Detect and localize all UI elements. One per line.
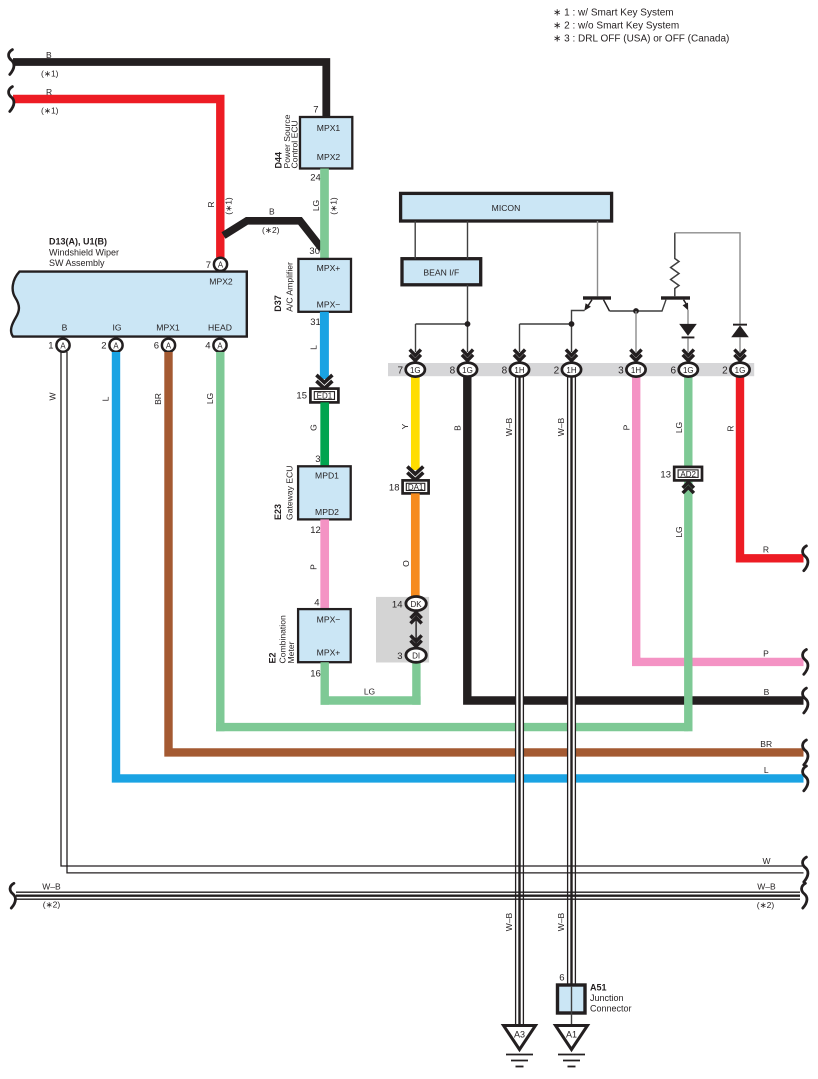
svg-text:LG: LG [674,526,684,537]
svg-text:6: 6 [154,341,159,352]
junction node collector [633,308,639,314]
wire W-B horizontal (*2) [16,881,800,910]
svg-text:MPX+: MPX+ [317,648,341,658]
wire LG (*1) D44 pin24 to D37 pin30 [309,169,338,260]
svg-text:D13(A), U1(B): D13(A), U1(B) [49,237,107,247]
wire diode D1 to pin6(1G) [687,338,689,352]
svg-text:B: B [46,50,52,60]
ground A1 [556,1026,588,1067]
wire O DA1 to DK [401,493,415,597]
svg-text:2: 2 [722,366,728,377]
svg-text:P: P [622,424,632,430]
wire B (*2) from R wire to D37 pin 30 [224,207,323,249]
svg-text:1H: 1H [514,366,524,375]
break left of wire W-B [10,883,15,908]
svg-text:8: 8 [450,366,456,377]
wire P E23 pin12 to E2 pin4 [309,519,325,609]
connector pin 6 (1G) [670,350,697,377]
svg-text:E23: E23 [273,504,283,520]
svg-text:IG: IG [112,323,121,333]
svg-text:A: A [166,342,172,351]
svg-text:Junction: Junction [590,993,624,1003]
svg-text:MPX2: MPX2 [317,152,341,162]
ECU MICON block [401,193,612,221]
svg-text:L: L [764,765,769,775]
svg-text:(∗1): (∗1) [41,69,59,79]
svg-text:6: 6 [670,366,676,377]
break right of wire L [803,766,808,791]
svg-text:MPX−: MPX− [317,300,341,310]
svg-text:R: R [763,545,769,555]
switch D13(A) U1(B) Windshield Wiper SW Assembly [11,237,247,337]
svg-text:Gateway ECU: Gateway ECU [285,466,295,520]
svg-text:A3: A3 [514,1030,525,1040]
svg-text:O: O [401,560,411,567]
svg-text:SW Assembly: SW Assembly [49,258,105,268]
svg-text:MPX+: MPX+ [317,263,341,273]
svg-text:(∗1): (∗1) [41,106,59,116]
svg-text:4: 4 [314,598,319,609]
wire LG E2 pin16 to connector DI [321,662,421,705]
wire W wiper pin1 to right edge [48,352,804,873]
svg-text:(∗2): (∗2) [757,900,775,910]
wire G ED1 to E23 pin3 [309,402,325,466]
pin 4 (A) bottom [205,339,226,352]
svg-text:W–B: W–B [42,881,61,891]
wire LG from wiper HEAD pin4 up to pin6(1G) [205,352,693,731]
svg-text:E2: E2 [268,652,278,663]
wire resistor top to diode D2 [675,233,740,324]
ECU D44 Power Source Control ECU [274,105,353,184]
svg-text:G: G [309,424,319,431]
svg-text:1H: 1H [631,366,641,375]
svg-text:R: R [46,87,52,97]
junction node Q1 emitter [569,321,575,327]
svg-text:3: 3 [315,454,320,465]
wire L D37 pin31 to ED1 [309,312,325,379]
break right of wire BR [803,740,808,765]
svg-text:1G: 1G [462,366,473,375]
svg-text:(∗2): (∗2) [43,900,61,910]
svg-text:A: A [113,342,119,351]
svg-text:BR: BR [153,393,163,405]
svg-text:MPX1: MPX1 [317,123,341,133]
connector strip 1G/1H [388,363,754,376]
svg-text:∗ 1 : w/ Smart Key System: ∗ 1 : w/ Smart Key System [553,8,674,19]
svg-text:MICON: MICON [492,203,521,213]
resistor R1 [671,233,679,296]
svg-text:8: 8 [502,366,508,377]
svg-text:A1: A1 [566,1030,577,1040]
pin 6 (A) bottom [154,339,175,352]
wire diode D2 to pin2(1G) [739,337,741,352]
svg-text:BR: BR [760,739,772,749]
svg-text:P: P [763,649,769,659]
svg-text:MPX2: MPX2 [209,277,233,287]
diode D1 [679,324,697,339]
wire R (*1) horizontal to wiper pin 7 [13,87,234,258]
svg-text:A: A [217,342,223,351]
svg-text:7: 7 [313,105,318,116]
svg-text:MPD1: MPD1 [315,470,339,480]
svg-text:HEAD: HEAD [208,323,232,333]
wire R pin2(1G) to right edge [726,377,804,559]
wire Q1 emitter to connectors 1H [520,311,585,353]
junction connector A51 [558,973,632,1026]
wire P pin3(1H) to right edge [622,377,804,662]
pin 2 (A) bottom [101,339,122,352]
break right of wire B [803,688,808,713]
svg-text:7: 7 [206,260,211,271]
svg-text:DA1: DA1 [408,483,424,492]
svg-text:15: 15 [296,391,307,402]
svg-text:W–B: W–B [556,912,566,931]
legend notes [553,8,729,45]
svg-text:(∗1): (∗1) [224,197,234,215]
svg-text:1: 1 [48,341,53,352]
connector DA1 [389,467,429,494]
svg-text:24: 24 [310,173,321,184]
wire L wiper IG pin2 to right edge [101,352,804,778]
svg-text:MPX−: MPX− [317,615,341,625]
svg-text:(∗1): (∗1) [329,197,339,215]
connector ED1 [296,375,338,402]
svg-text:W: W [762,856,770,866]
svg-text:Meter: Meter [286,641,296,663]
svg-text:W: W [48,392,58,400]
svg-text:A: A [218,261,224,270]
break left of wire B [9,50,14,75]
arrows and link DK to DI [411,612,422,646]
svg-text:B: B [764,687,770,697]
svg-text:A: A [60,342,66,351]
wire Q1 collector to Q2 collector [610,300,667,311]
svg-text:LG: LG [364,687,375,697]
svg-text:Windshield Wiper: Windshield Wiper [49,248,119,258]
svg-text:BEAN I/F: BEAN I/F [423,267,459,277]
connector pin 8 (1H) [502,350,529,377]
svg-text:DI: DI [412,652,420,661]
break right of wire P [803,650,808,675]
svg-text:Y: Y [400,423,410,429]
svg-text:LG: LG [311,200,321,211]
connector DK pin14 [392,597,426,611]
svg-text:B: B [62,323,68,333]
transistor Q2 [661,296,690,310]
ECU BEAN I/F block [402,259,481,285]
svg-text:2: 2 [554,366,560,377]
svg-text:12: 12 [310,525,321,536]
svg-text:MPX1: MPX1 [156,323,180,333]
ECU E2 Combination Meter [268,609,351,679]
wire node to pin3(1H) [635,311,637,352]
connector pin 2 (1H) [554,350,581,377]
wire B (*1) top horizontal [13,50,326,117]
svg-text:31: 31 [310,317,321,328]
break right of wire R [803,546,808,571]
svg-text:A51: A51 [590,983,607,993]
svg-text:L: L [309,345,319,350]
wire Y pin7(1G) to DA1 [400,377,415,471]
svg-text:B: B [453,425,463,431]
connector pin 8 (1G) [450,350,477,377]
svg-text:D37: D37 [273,295,283,312]
svg-text:∗ 3 : DRL OFF (USA) or OFF (Ca: ∗ 3 : DRL OFF (USA) or OFF (Canada) [553,34,729,45]
wire MICON to BEAN I/F right [467,221,469,259]
svg-text:R: R [206,201,216,207]
svg-text:W–B: W–B [504,417,514,436]
connector AD2 on LG wire [660,467,702,493]
svg-text:13: 13 [660,470,671,481]
svg-text:W–B: W–B [757,882,776,892]
svg-text:1G: 1G [683,366,694,375]
svg-text:A/C Amplifier: A/C Amplifier [285,262,295,312]
connector DI pin3 [397,648,426,662]
svg-text:Connector: Connector [590,1004,632,1014]
svg-text:ED1: ED1 [317,392,333,401]
svg-text:W–B: W–B [504,912,514,931]
svg-text:7: 7 [397,366,403,377]
svg-text:30: 30 [309,246,320,257]
ECU E23 Gateway ECU [273,466,351,536]
svg-text:1G: 1G [410,366,421,375]
svg-text:DK: DK [411,600,423,609]
break right of wire W-B [802,883,807,908]
wire BR wiper MPX1 pin6 to right edge [153,352,804,752]
connector pin 7 (1G) [397,350,424,377]
svg-text:(∗2): (∗2) [262,225,280,235]
connector pin 2 (1G) [722,350,749,377]
pin 1 (A) bottom [48,339,69,352]
break right of wire W [803,857,808,882]
svg-text:3: 3 [397,651,402,662]
wire W-B pin8(1H) to ground A3 [504,377,524,1026]
svg-text:6: 6 [559,973,564,984]
svg-text:L: L [101,396,111,401]
svg-text:MPD2: MPD2 [315,507,339,517]
svg-text:2: 2 [101,341,106,352]
grey junction block DK/DI [376,597,429,663]
svg-text:∗ 2 : w/o Smart Key System: ∗ 2 : w/o Smart Key System [553,21,679,32]
transistor Q1 [583,296,611,311]
svg-text:1H: 1H [566,366,576,375]
ECU D37 A/C Amplifier [273,259,351,328]
svg-text:4: 4 [205,341,210,352]
ground A3 [504,1026,536,1067]
svg-text:AD2: AD2 [680,470,696,479]
svg-text:Control ECU: Control ECU [290,120,300,168]
svg-text:14: 14 [392,599,403,610]
svg-text:16: 16 [310,669,321,680]
svg-text:18: 18 [389,483,400,494]
svg-text:W–B: W–B [556,417,566,436]
wire B pin8(1G) to right edge [453,377,804,701]
svg-text:P: P [309,564,319,570]
connector pin 3 (1H) [618,350,645,377]
svg-text:1G: 1G [735,366,746,375]
svg-text:R: R [726,425,736,431]
svg-text:LG: LG [674,422,684,433]
break left of wire R [9,87,14,112]
pin 7 (A) top of wiper switch [206,258,227,271]
svg-text:B: B [269,207,275,217]
diode D2 [731,324,749,338]
svg-text:3: 3 [618,366,624,377]
wire Q2 emitter to diode D1 [687,310,689,324]
junction node at BEAN output [465,321,471,327]
wire W-B pin2(1H) to A51 [556,377,576,986]
wire MICON to transistor Q1 base [597,221,599,296]
wire MICON to BEAN I/F left [414,221,416,259]
svg-text:LG: LG [205,393,215,404]
wire BEAN I/F to connectors 1G [416,285,468,352]
